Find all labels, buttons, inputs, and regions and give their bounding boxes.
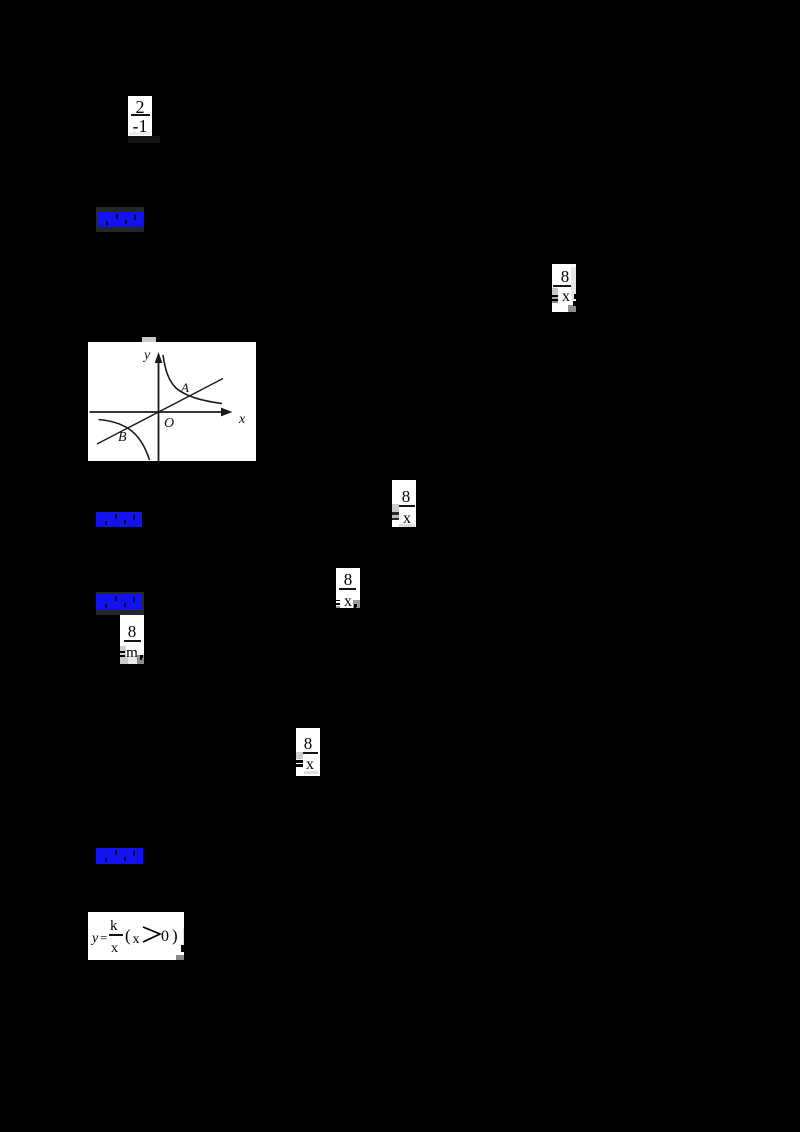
graph image xyxy=(142,337,156,343)
blue label 3 xyxy=(96,592,144,615)
hyperbola Q1 xyxy=(163,355,222,404)
svg-text:B: B xyxy=(118,430,127,445)
blue label 4 xyxy=(96,848,143,864)
blue label 2 xyxy=(96,512,142,527)
svg-text:x: x xyxy=(238,412,246,427)
fraction 2/-1 xyxy=(128,96,152,136)
fraction =8/x, (top right) xyxy=(552,264,576,312)
hyperbola Q3 xyxy=(99,420,150,461)
fraction =8/x (lower) xyxy=(296,728,320,776)
blue label 1 xyxy=(96,207,144,232)
svg-text:y: y xyxy=(142,348,151,363)
svg-text:A: A xyxy=(180,380,189,395)
fraction 8/x, (middle) xyxy=(336,568,360,608)
y axis xyxy=(158,356,160,461)
equation y=k/x (x>0) xyxy=(88,912,184,960)
fraction =8/x (middle right) xyxy=(392,480,416,527)
diagonal line xyxy=(97,379,223,445)
svg-text:O: O xyxy=(164,416,174,431)
fraction =8/m, xyxy=(120,615,144,664)
x axis xyxy=(90,411,225,413)
